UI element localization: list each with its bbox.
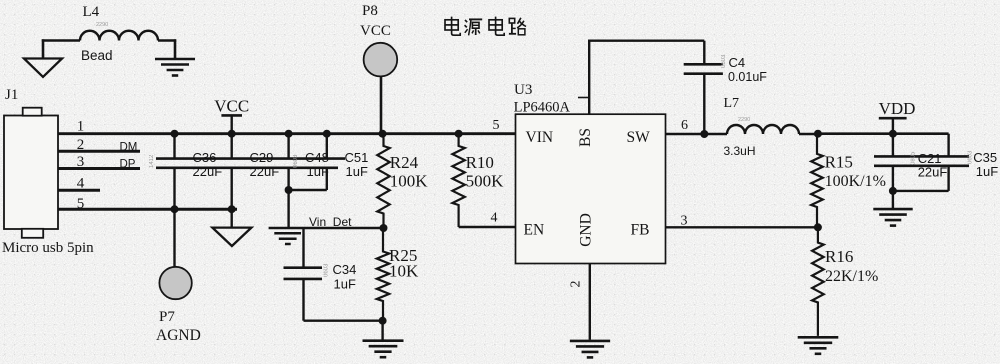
wire Vin_Det horizontal (269, 227, 384, 229)
pin 4 number (EN) (491, 211, 498, 226)
svg-text:2290: 2290 (738, 117, 750, 123)
wire FB (666, 226, 818, 228)
svg-text:R24: R24 (390, 153, 419, 172)
junction C29 bottom (228, 205, 236, 213)
svg-text:Micro usb 5pin: Micro usb 5pin (2, 240, 94, 256)
power symbol VDD (879, 99, 916, 134)
svg-text:22uF: 22uF (250, 164, 280, 179)
resistor R25 (377, 228, 389, 321)
svg-text:R16: R16 (825, 247, 853, 266)
svg-text:10K: 10K (389, 262, 419, 281)
svg-text:DM: DM (120, 141, 138, 153)
inductor L7 value (724, 144, 756, 158)
svg-text:C48: C48 (305, 150, 329, 165)
wire BS to C4 (588, 41, 704, 115)
capacitor C35 footprint code (968, 150, 974, 164)
title 电源电路 char 2 (yuan) (465, 19, 483, 35)
pin 3 number (77, 154, 85, 170)
pin label FB (631, 222, 650, 239)
wire ground rail (pin 5 net) (58, 208, 237, 211)
svg-text:3.3uH: 3.3uH (724, 144, 756, 158)
svg-text:2290: 2290 (96, 22, 108, 28)
svg-text:L7: L7 (724, 96, 740, 111)
svg-text:1uF: 1uF (334, 277, 356, 292)
capacitor C51 label (345, 150, 369, 179)
svg-text:1uF: 1uF (307, 164, 329, 179)
ground under R16 (798, 337, 839, 354)
svg-text:LP6460A: LP6460A (514, 100, 571, 116)
pin 4 wire (58, 189, 100, 192)
svg-text:0603: 0603 (293, 154, 299, 168)
capacitor C36 (173, 134, 175, 210)
svg-text:FB: FB (631, 222, 650, 239)
inductor L4 (80, 31, 158, 41)
svg-text:GND: GND (578, 213, 595, 247)
capacitor C48 (287, 134, 289, 228)
capacitor C35 label (973, 150, 998, 179)
svg-text:1uF: 1uF (976, 164, 998, 179)
pin 3 wire DP (58, 167, 140, 170)
resistor R15 label (825, 152, 886, 190)
connector J1 name (2, 240, 94, 256)
svg-text:BS: BS (577, 128, 594, 147)
capacitor C35 (947, 166, 949, 191)
wire VDD rail (818, 134, 949, 156)
junction C36 top (171, 130, 179, 138)
svg-text:U3: U3 (514, 82, 532, 98)
svg-text:Vin_Det: Vin_Det (309, 215, 352, 229)
capacitor C34 (284, 228, 323, 321)
capacitor C51 (326, 134, 328, 190)
inductor L4 footprint code (96, 22, 108, 28)
svg-text:1412: 1412 (149, 154, 155, 168)
pin 5 number (77, 196, 85, 212)
svg-text:VCC: VCC (360, 23, 391, 39)
svg-text:C29: C29 (250, 150, 274, 165)
svg-text:1uF: 1uF (346, 164, 368, 179)
capacitor C29 label (250, 150, 280, 179)
label DM (120, 141, 138, 153)
wire C51 bottom to C48 (289, 189, 327, 191)
svg-text:5: 5 (493, 118, 500, 133)
svg-text:0805: 0805 (911, 151, 917, 165)
svg-text:6: 6 (681, 118, 688, 133)
wire VCC rail (pin 1 net) (58, 132, 516, 135)
wire C34 bottom to R25 bottom (304, 320, 383, 322)
pin 6 number (SW) (681, 118, 688, 133)
junction VCC on rail (228, 130, 236, 138)
pin 5 number (VIN) (493, 118, 500, 133)
pin 3 number (FB) (681, 213, 688, 228)
connector J1 body (4, 108, 58, 238)
power symbol VCC (214, 96, 249, 133)
capacitor C21 label (918, 151, 948, 180)
junction P8/R24 on rail (379, 130, 387, 138)
pin 2 number (77, 137, 85, 153)
svg-text:0.01uF: 0.01uF (728, 70, 767, 84)
earth ground left of L4 (24, 59, 62, 77)
inductor L4 label (83, 4, 100, 20)
svg-text:J1: J1 (5, 87, 18, 103)
svg-text:DP: DP (120, 159, 136, 171)
capacitor C34 footprint code (324, 263, 330, 277)
capacitor bank bottom plate line (156, 167, 338, 170)
pin label BS (577, 128, 594, 147)
svg-text:500K: 500K (466, 172, 505, 191)
capacitor C48 footprint code (293, 154, 299, 168)
junction C51/C48 bottom node (285, 186, 293, 194)
svg-text:100K/1%: 100K/1% (825, 173, 886, 190)
pin 2 wire DM (58, 150, 140, 153)
pin label SW (627, 129, 651, 146)
resistor R25 label (389, 246, 419, 281)
svg-text:100K: 100K (390, 172, 429, 191)
ground right of L4 (155, 59, 195, 76)
svg-text:P8: P8 (362, 3, 378, 19)
svg-text:AGND: AGND (156, 327, 201, 344)
title 电源电路 char 4 (lu) (509, 18, 526, 35)
svg-text:C36: C36 (193, 150, 217, 165)
svg-text:1: 1 (77, 119, 85, 135)
junction C48 top (285, 130, 293, 138)
svg-text:VDD: VDD (879, 99, 916, 118)
wire P7 (173, 209, 175, 267)
junction C51 top (323, 130, 331, 138)
svg-text:R10: R10 (466, 153, 494, 172)
ground under C21 (873, 209, 912, 226)
capacitor C36 label (193, 150, 223, 179)
wire R25 to ground (381, 321, 383, 341)
net label Vin_Det (309, 215, 352, 229)
earth ground under C29 (212, 228, 251, 246)
capacitor C21 footprint code (911, 151, 917, 165)
wire SW to L7 (666, 133, 728, 136)
pin 2 number (GND) (569, 281, 584, 288)
wire C21 to ground (892, 191, 894, 209)
wire P8 to rail (380, 76, 383, 133)
resistor R24 label (390, 153, 429, 191)
net label AGND (156, 327, 201, 344)
resistor R10 (452, 134, 464, 227)
svg-text:22uF: 22uF (193, 164, 223, 179)
op-amp U3 body (516, 114, 666, 263)
junction FB/R15/R16 (814, 223, 822, 231)
svg-text:R15: R15 (825, 152, 853, 171)
op-amp U3 part number (514, 98, 589, 116)
svg-text:C51: C51 (345, 150, 369, 165)
label DP (120, 159, 136, 171)
svg-text:SW: SW (627, 129, 651, 146)
svg-text:C35: C35 (973, 150, 997, 165)
capacitor C36 footprint code (149, 154, 155, 168)
inductor L7 footprint code (738, 117, 750, 123)
inductor L7 (727, 125, 799, 134)
testpoint P8 pad (364, 43, 398, 77)
wire C29 to earth ground (230, 209, 232, 227)
svg-text:EN: EN (524, 222, 545, 239)
svg-text:C4: C4 (729, 55, 746, 70)
resistor R16 (812, 227, 824, 336)
svg-text:0603: 0603 (324, 263, 330, 277)
resistor R16 label (825, 247, 878, 285)
inductor L7 label (724, 96, 740, 111)
pin 1 number (77, 119, 85, 135)
resistor R24 (377, 134, 389, 228)
wire EN (459, 226, 516, 228)
svg-text:2: 2 (569, 281, 584, 288)
wire L4 left to earth (42, 39, 80, 58)
capacitor C21 (874, 134, 969, 191)
svg-text:VCC: VCC (214, 96, 249, 115)
capacitor C4 footprint code (721, 54, 727, 68)
svg-text:22uF: 22uF (918, 165, 948, 180)
junction R10 top (455, 130, 463, 138)
title 电源电路 char 1 (dian) (445, 17, 460, 36)
connector J1 designator (5, 87, 18, 103)
pin label EN (524, 222, 545, 239)
svg-text:VIN: VIN (526, 129, 554, 146)
capacitor C4 (684, 64, 723, 134)
capacitor C4 label (728, 55, 767, 84)
inductor L4 value label (81, 48, 113, 63)
svg-text:Bead: Bead (81, 48, 113, 63)
capacitor C29 (230, 134, 232, 210)
svg-text:0603: 0603 (721, 54, 727, 68)
resistor R10 label (466, 153, 505, 191)
ground hatch under Vin_Det wire (274, 233, 301, 244)
svg-text:4: 4 (491, 211, 498, 226)
capacitor bank top plate line (156, 157, 345, 160)
wire U3 GND pin to ground (589, 264, 591, 340)
op-amp U3 designator (514, 82, 532, 98)
wire L4 right to ground (158, 39, 176, 59)
testpoint P7 label (159, 309, 175, 325)
testpoint P8 label (362, 3, 378, 19)
ground under R25 (363, 341, 404, 358)
wire C35 bottom to C21 (893, 190, 949, 192)
junction C21 bottom (889, 187, 897, 195)
junction C36 bottom (171, 205, 179, 213)
svg-text:P7: P7 (159, 309, 175, 325)
wire L7 to output rail (799, 133, 818, 136)
junction R25 bottom (379, 317, 387, 325)
svg-text:C34: C34 (333, 262, 357, 277)
svg-text:22K/1%: 22K/1% (825, 268, 878, 285)
svg-text:L4: L4 (83, 4, 100, 20)
resistor R15 (811, 134, 823, 228)
ground under U3 (570, 341, 610, 358)
net label VCC at P8 (360, 23, 391, 39)
pin label VIN (526, 129, 554, 146)
junction C4 on SW net (700, 130, 708, 138)
testpoint P7 pad (159, 267, 191, 299)
junction L7/R15 (814, 130, 822, 138)
capacitor C48 label (305, 150, 329, 179)
capacitor C34 label (333, 262, 357, 292)
pin 4 number (77, 176, 85, 192)
junction R24 bottom on Vin_Det (380, 224, 388, 232)
title 电源电路 char 3 (dian) (489, 17, 504, 36)
junction VDD on rail (889, 130, 897, 138)
pin label GND (578, 213, 595, 247)
